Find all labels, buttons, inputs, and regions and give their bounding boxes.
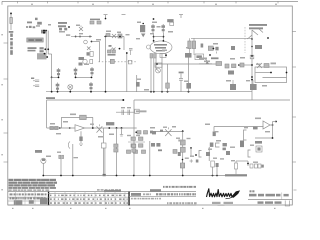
capacitor C11 [186, 83, 191, 89]
capacitor C31 [40, 50, 44, 52]
label tone b [136, 135, 140, 136]
bottom outer zone marks [12, 208, 276, 209]
capacitor C17 [122, 110, 124, 115]
address text [167, 202, 197, 204]
label D1 D2 [59, 31, 65, 33]
resistor R4b [112, 50, 115, 53]
table heavy divider 1 [48, 192, 49, 206]
resistor R5 [166, 64, 170, 92]
label K1 value [96, 39, 101, 41]
junction node U [182, 130, 184, 132]
label F1 value [9, 31, 14, 33]
mains label box [27, 38, 44, 42]
wire tone link [128, 141, 145, 143]
label V4 anode [168, 31, 173, 33]
PI cathode box [250, 55, 254, 59]
label C18 value [127, 107, 131, 108]
output caps [59, 155, 64, 158]
junction heater 6 [167, 91, 169, 93]
label C17 value [121, 107, 125, 108]
wire sw drop [182, 131, 184, 175]
label NFB top [271, 63, 277, 65]
label R3 R4 [108, 54, 116, 56]
tone res R18 [134, 150, 138, 153]
wire V4 drop 3 [155, 54, 157, 70]
wire B+ branch [190, 38, 253, 41]
wire bias drop [247, 161, 249, 166]
diode D1 [59, 28, 62, 31]
right ruler ticks [292, 32, 296, 191]
label Q1 pin [79, 33, 83, 34]
label fx [35, 150, 42, 153]
valve V1b [74, 68, 78, 77]
capacitor C12 [208, 46, 214, 51]
switch SW1b [128, 60, 132, 64]
table left text row 1 [10, 193, 47, 195]
speaker bracket [248, 150, 251, 157]
choke L1 [256, 146, 262, 152]
resistor R6 [211, 57, 222, 65]
test point TP2 [122, 14, 126, 16]
junction node C [44, 53, 46, 55]
wire HT rail B [47, 31, 49, 54]
junction out 1 [92, 127, 94, 129]
label text row M [28, 50, 36, 52]
junction dark cluster [41, 30, 47, 34]
capacitor C29 [210, 143, 214, 147]
capacitor C9b [129, 49, 133, 56]
left ruler ticks [4, 43, 8, 162]
capacitor C15 [230, 80, 236, 90]
diode D5 [33, 26, 36, 28]
input jack stub [66, 34, 76, 36]
transistor Q3 [112, 34, 116, 38]
resistor R16 [55, 126, 59, 129]
junction input 1 [75, 36, 77, 38]
label U2 pin [265, 131, 270, 132]
wire PI diag 3 [258, 28, 263, 33]
title block small text [250, 190, 255, 192]
wire drop b [116, 128, 118, 176]
logo address text [212, 202, 233, 206]
label PI text row 1 [249, 24, 267, 26]
resistor R12 [238, 63, 244, 67]
lamp LP2 [156, 68, 161, 73]
label HT text [37, 22, 42, 25]
transistor Q6 [108, 48, 120, 53]
label q5 row [178, 140, 183, 142]
wire HT rail A [45, 31, 47, 54]
wire amp up [273, 122, 277, 139]
sheet outer top border line [2, 1, 298, 4]
junction node L [156, 63, 158, 65]
left outer zone marks [1, 34, 2, 190]
table left block 3 [40, 198, 48, 204]
relay K1 text [87, 52, 90, 55]
junction V4a [153, 36, 155, 38]
table left text row 2 [10, 197, 46, 199]
table right text 3 [131, 198, 161, 200]
wire vertical rail [136, 75, 138, 92]
table cell text 1 [50, 195, 125, 197]
junction node P [267, 37, 269, 39]
parts list top rule [8, 191, 196, 193]
label R15 value [50, 123, 55, 125]
junction PI 3 [251, 76, 253, 78]
junction bias [247, 163, 249, 165]
wire LP3 drop [69, 90, 71, 92]
wire input run [76, 36, 92, 38]
mains label box text [28, 39, 42, 41]
connector J2 [216, 143, 220, 147]
resistor R15 [50, 126, 54, 129]
capacitor C16 [250, 80, 257, 90]
wire send stub [213, 127, 215, 132]
wire cap run [116, 111, 134, 113]
label C11 value [184, 81, 188, 82]
wire NFB inner [256, 72, 272, 74]
wire V4 drop 2 [153, 54, 155, 92]
ground bar [46, 97, 55, 99]
resistor R9 [215, 47, 218, 54]
label V4 pin [150, 33, 154, 34]
label tone a [127, 135, 131, 136]
label J1 pin [136, 38, 140, 39]
capacitor C14 [231, 46, 235, 50]
switch SW1 [110, 59, 114, 63]
title rev cell [285, 201, 289, 207]
junction heater 7 [188, 91, 190, 93]
table right box [131, 193, 141, 196]
title ver divider [281, 193, 283, 200]
wire V4a neck [153, 33, 155, 41]
table cell text 3 [50, 202, 128, 204]
label U2 value [255, 118, 261, 120]
revision box [150, 189, 161, 192]
label U1 value [70, 114, 76, 116]
capacitor C24 [213, 132, 216, 137]
label C25 value [208, 149, 212, 150]
relay K3 [180, 140, 185, 145]
resistor R13 [257, 63, 262, 68]
junction bus 2 [133, 175, 135, 177]
tone pot VR2 [131, 137, 135, 140]
table left block 2 [29, 200, 34, 204]
valve V1c [90, 67, 94, 76]
capacitor C10 [179, 72, 184, 92]
wire heater link B [76, 76, 92, 78]
table rule b [8, 196, 129, 198]
wire tone rail [133, 100, 135, 176]
capacitor C4 [90, 21, 94, 24]
junction PI 1 [251, 55, 253, 57]
wire drop a2 [104, 148, 106, 176]
label node top [48, 24, 51, 26]
junction bus 5 [216, 175, 218, 177]
junction node R [59, 127, 61, 129]
wire fuse stub [10, 12, 12, 30]
parts row small text [97, 189, 121, 191]
junction node K [209, 54, 211, 56]
lower bus thick end [225, 174, 247, 176]
junction mid 1 [105, 36, 107, 38]
wire sw run [156, 131, 183, 133]
wire drop a [103, 128, 105, 143]
junction bus 2b [149, 175, 151, 177]
capacitor C5 [97, 21, 101, 24]
label V4 value [162, 50, 167, 52]
junction PI 2 [251, 64, 253, 66]
valve V4 internal [154, 44, 167, 51]
label R10 value [230, 58, 235, 60]
resistor R8 [192, 41, 195, 55]
wire ht drop [46, 100, 48, 128]
wire relay feed [92, 42, 100, 62]
speaker bracket B [199, 151, 202, 158]
label C8 value [137, 79, 141, 80]
wire jog [48, 53, 51, 55]
junction node N [251, 38, 253, 40]
wire V4 drop 1 [150, 54, 152, 92]
feedback resistor [80, 115, 87, 119]
trim part [147, 45, 151, 49]
op-amp U1 [75, 125, 85, 132]
tone res R19 [142, 150, 146, 153]
valve V2b [89, 82, 93, 91]
bias network resistor R23 [235, 161, 238, 174]
resistor R4a [108, 50, 111, 53]
junction node I [153, 40, 155, 42]
resistor R10 [225, 64, 229, 68]
label J2 value [216, 140, 221, 142]
junction out 4 [121, 127, 123, 129]
label tone row [136, 110, 147, 112]
label LP1 value [84, 64, 89, 66]
junction input 2 [79, 36, 81, 38]
relay K4 [180, 147, 185, 152]
label K3 value [176, 138, 180, 139]
polarity mark [190, 159, 194, 162]
junction node O [251, 46, 253, 48]
label K3 pin [187, 138, 191, 139]
label L1 pin [250, 145, 254, 146]
wire PI diag 1 [252, 30, 258, 35]
table right text 1 [143, 193, 151, 195]
junction bus 0 [42, 175, 44, 177]
wire V4 anode link [154, 36, 164, 38]
notes text row 2 [9, 182, 58, 184]
tone box A [135, 131, 141, 134]
wire drop c [120, 128, 123, 136]
transistor Q4 [97, 124, 103, 132]
label C1 text [27, 22, 32, 24]
label C4 C5 [90, 19, 100, 21]
table column lines [55, 192, 125, 206]
pilot lamp [84, 40, 88, 44]
label fx top [63, 121, 68, 123]
capacitor C23 [178, 152, 181, 156]
transistor Q5 [165, 127, 171, 136]
label bias [228, 71, 234, 75]
feedback loop left [60, 117, 62, 128]
label Q4 pin [98, 136, 103, 138]
wire mid run [104, 36, 124, 38]
resistor R20 [180, 159, 184, 168]
junction heater 1 [57, 91, 59, 93]
table left block 1 [14, 200, 22, 204]
label NFB lower [262, 85, 267, 87]
label R20 value [185, 158, 189, 159]
capacitor C25 [206, 152, 210, 156]
label xfmr pin [244, 127, 248, 128]
label C20 value [150, 127, 155, 129]
label C7 value [117, 32, 121, 34]
capacitor C6 [106, 34, 110, 37]
label Q4 value [90, 124, 94, 125]
resistor R21 [211, 161, 215, 176]
junction amp 3 [272, 137, 274, 139]
label C21 value [163, 127, 167, 128]
capacitor C19 [135, 109, 139, 113]
ground bus wire [47, 99, 124, 101]
junction heater A [58, 77, 60, 79]
sheet number vertical text [10, 34, 13, 55]
wire V4b neck [162, 33, 164, 41]
wire vertical feed B [126, 52, 128, 92]
input stage cluster [79, 57, 93, 66]
wire drop to reservoir [51, 54, 53, 77]
junction heater C [91, 77, 93, 79]
wire v6 lead [42, 163, 44, 175]
connector J1 [140, 23, 145, 38]
title block rule [248, 199, 292, 201]
dark pad a [103, 174, 106, 176]
wire bias dashed [244, 27, 246, 53]
wire opamp out [85, 127, 137, 129]
tone pot VR4 [131, 144, 135, 147]
label C2 C3 [31, 78, 34, 80]
approval text row [163, 186, 196, 188]
label VR1 pin [204, 61, 210, 63]
label NFB value [246, 80, 250, 81]
table rule c [8, 200, 129, 202]
wire NFB inner2 [263, 77, 287, 79]
wire V2a drop [57, 90, 59, 93]
feedback loop top [61, 116, 92, 118]
junction amp 2 [275, 121, 277, 123]
valve V4 anode parts [167, 19, 173, 25]
table heavy divider 2 [128, 192, 129, 206]
label text row L [28, 47, 37, 49]
junction NFB 1 [286, 72, 288, 74]
wire vertical feed [123, 37, 125, 51]
capacitor C26 [240, 141, 244, 148]
label C15 value [226, 80, 231, 82]
capacitor C28 [196, 160, 199, 163]
junction node W [195, 154, 197, 156]
label C6 value [106, 31, 111, 33]
transistor Q2 [87, 47, 91, 51]
diode D2 [64, 28, 67, 31]
wire v7 lead [72, 144, 74, 176]
wire amp bottom [255, 137, 273, 139]
wire oc lead [60, 159, 62, 176]
wire PI diag 2 [248, 35, 253, 39]
rectifier cluster [37, 53, 47, 59]
opamp drop stub [79, 131, 83, 145]
notes text row 5 [9, 189, 50, 191]
test point TP3 [179, 15, 183, 18]
junction node DD [68, 26, 70, 28]
capacitor C32 [223, 143, 227, 146]
junction node Fa [91, 41, 93, 43]
junction bus 0c [72, 175, 74, 177]
label VR1 value [199, 58, 207, 60]
label PI text row 2 [249, 27, 263, 29]
junction heater 0 [51, 91, 53, 93]
label D4 pin [26, 26, 28, 28]
capacitor C33 [223, 148, 226, 151]
feedback loop right [92, 117, 94, 128]
junction PI 4 [251, 79, 253, 81]
junction out 3 [116, 127, 118, 129]
relay K6 [132, 144, 136, 152]
junction node D [46, 56, 48, 58]
capacitor C21 [160, 130, 163, 132]
junction heater 2 [69, 91, 71, 93]
label V6 pin [57, 152, 61, 153]
valve V4b [161, 24, 165, 33]
label V6 value [46, 156, 51, 158]
junction node S [69, 127, 71, 129]
resistor R3 [109, 45, 112, 47]
wire reservoir drop [51, 77, 53, 91]
label xfmr [255, 141, 262, 144]
wire vertical feed C [105, 37, 107, 92]
wire bias top [236, 160, 248, 162]
resistor R24 [150, 54, 153, 59]
capacitor C9 box [160, 54, 167, 58]
label v7 dash [74, 157, 79, 158]
table rule a [48, 192, 129, 194]
junction heater 5 [161, 91, 163, 93]
junction bus 0b [60, 175, 62, 177]
valve V2a [56, 83, 60, 92]
valve V6 [41, 158, 46, 163]
notes text row 3 [9, 184, 56, 186]
valve V4a [151, 24, 155, 33]
wire PI drop [251, 30, 253, 100]
potentiometer VR1 [199, 59, 212, 64]
wire drop d [149, 141, 151, 176]
label HT right row [58, 22, 67, 24]
capacitor C13 [255, 45, 262, 49]
junction node J [163, 40, 165, 42]
junction out 2 [108, 127, 110, 129]
coupling box [155, 63, 162, 67]
top ruler tick marks [18, 1, 279, 3]
wire switch out [115, 61, 137, 63]
tone pot VR5 [139, 144, 143, 147]
label relay text [151, 143, 162, 151]
wire PI link [244, 64, 252, 66]
ground bus wire right [134, 99, 290, 101]
valve V1a [57, 68, 61, 77]
resistor R7 [188, 41, 191, 55]
transformer bracket [244, 130, 247, 140]
junction bus 3 [182, 175, 184, 177]
label R7 value [186, 47, 189, 48]
